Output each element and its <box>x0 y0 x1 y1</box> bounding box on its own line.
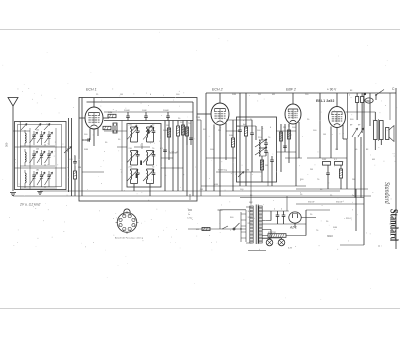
svg-text:4M: 4M <box>196 229 199 231</box>
svg-text:2M: 2M <box>283 127 286 129</box>
svg-text:2M: 2M <box>78 167 81 169</box>
svg-text:2x: 2x <box>352 195 354 197</box>
svg-text:Standard: Standard <box>383 182 391 204</box>
svg-text:6,3V: 6,3V <box>288 248 293 250</box>
svg-text:4M: 4M <box>272 94 275 96</box>
svg-text:50M: 50M <box>108 112 112 114</box>
svg-text:2M: 2M <box>218 130 221 132</box>
svg-text:2M: 2M <box>200 189 203 191</box>
svg-text:2M: 2M <box>352 179 355 181</box>
svg-text:200: 200 <box>67 147 70 152</box>
svg-text:EBF 2: EBF 2 <box>286 88 296 92</box>
svg-text:1M: 1M <box>265 165 268 167</box>
svg-text:50M: 50M <box>214 184 218 186</box>
svg-text:50M: 50M <box>322 159 326 161</box>
svg-text:4M: 4M <box>372 159 375 161</box>
svg-text:Ansicht der Fassung v. unten g: Ansicht der Fassung v. unten g <box>115 237 143 240</box>
svg-text:2000F: 2000F <box>124 110 131 112</box>
svg-text:300: 300 <box>5 142 9 147</box>
svg-text:ECH 1: ECH 1 <box>86 88 97 92</box>
svg-text:4: 4 <box>274 209 275 211</box>
svg-text:BT 7232: BT 7232 <box>268 232 277 234</box>
svg-text:1M: 1M <box>335 149 338 151</box>
svg-text:50M: 50M <box>232 94 236 96</box>
svg-text:Standard: Standard <box>387 209 400 242</box>
svg-text:1M: 1M <box>166 125 169 127</box>
svg-text:50M: 50M <box>84 149 88 151</box>
svg-text:50M: 50M <box>163 130 167 132</box>
svg-text:1M: 1M <box>120 94 123 96</box>
svg-text:2M: 2M <box>258 94 261 96</box>
svg-text:2M: 2M <box>310 169 313 171</box>
svg-text:500M log: 500M log <box>218 170 228 172</box>
svg-text:ECH 2: ECH 2 <box>212 88 223 92</box>
svg-text:4: 4 <box>281 209 282 211</box>
svg-text:+ 255 V: + 255 V <box>344 218 352 220</box>
svg-text:2000F: 2000F <box>163 110 170 112</box>
svg-text:AZ 1: AZ 1 <box>289 226 297 230</box>
svg-text:50M: 50M <box>196 117 200 119</box>
svg-text:=: = <box>378 245 380 249</box>
svg-text:2x: 2x <box>188 214 190 216</box>
svg-text:100F: 100F <box>142 110 147 112</box>
svg-text:2V u. 3,2 km2: 2V u. 3,2 km2 <box>19 203 41 207</box>
svg-text:100: 100 <box>36 149 39 151</box>
svg-text:10M: 10M <box>245 170 249 172</box>
svg-text:C.Sw: C.Sw <box>187 218 193 220</box>
svg-text:2x50mF: 2x50mF <box>168 151 179 155</box>
svg-text:1M: 1M <box>323 134 326 136</box>
svg-text:100: 100 <box>36 130 39 132</box>
svg-text:50M: 50M <box>229 135 233 137</box>
svg-text:550 W: 550 W <box>336 202 343 204</box>
svg-text:+ 90 V: + 90 V <box>327 88 337 92</box>
svg-text:50M: 50M <box>333 227 337 229</box>
svg-text:EBL1 2a52: EBL1 2a52 <box>316 99 334 103</box>
svg-text:550 W: 550 W <box>308 202 315 204</box>
svg-text:3DZ2: 3DZ2 <box>327 235 334 238</box>
